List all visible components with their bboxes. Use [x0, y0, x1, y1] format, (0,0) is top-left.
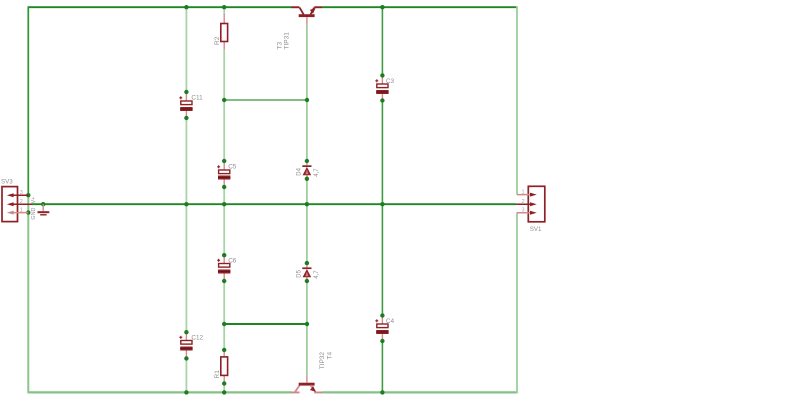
svg-text:T4: T4 — [327, 352, 334, 360]
svg-text:SV3: SV3 — [1, 178, 13, 185]
svg-text:TIP32: TIP32 — [319, 352, 326, 370]
svg-text:4,7: 4,7 — [314, 270, 320, 279]
svg-text:3: 3 — [521, 208, 524, 214]
svg-text:C6: C6 — [228, 258, 237, 265]
svg-text:D4: D4 — [297, 167, 303, 175]
svg-text:TIP31: TIP31 — [284, 32, 291, 50]
svg-text:T3: T3 — [277, 42, 284, 50]
svg-text:2: 2 — [521, 199, 524, 205]
svg-text:C11: C11 — [191, 94, 203, 101]
svg-text:2: 2 — [20, 199, 23, 205]
svg-text:R2: R2 — [214, 36, 221, 45]
svg-text:SV1: SV1 — [530, 226, 542, 233]
svg-text:R1: R1 — [214, 370, 221, 379]
svg-text:C5: C5 — [228, 163, 237, 170]
svg-text:C3: C3 — [386, 78, 395, 85]
svg-text:V+: V+ — [31, 197, 37, 204]
svg-text:D5: D5 — [297, 269, 303, 277]
svg-text:1: 1 — [521, 189, 524, 195]
svg-text:3: 3 — [20, 190, 23, 196]
svg-text:4,7: 4,7 — [314, 168, 320, 177]
svg-text:GND: GND — [31, 208, 37, 220]
svg-text:1: 1 — [20, 207, 23, 213]
svg-text:C12: C12 — [191, 335, 203, 342]
svg-text:C4: C4 — [386, 318, 395, 325]
